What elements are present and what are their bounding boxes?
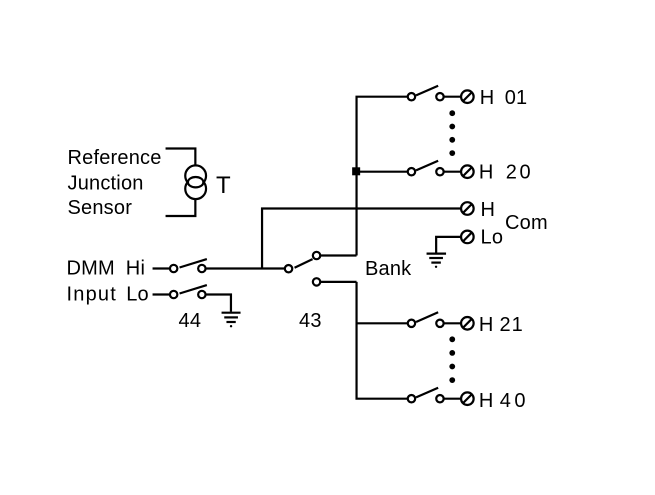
svg-text:H: H	[480, 87, 495, 109]
svg-text:T: T	[216, 172, 231, 199]
svg-text:H: H	[479, 162, 494, 184]
svg-text:Junction: Junction	[68, 173, 144, 195]
svg-text:Lo: Lo	[126, 284, 149, 306]
svg-text:21: 21	[500, 314, 524, 336]
svg-text:44: 44	[179, 310, 202, 332]
svg-text:40: 40	[500, 390, 529, 412]
svg-text:20: 20	[506, 162, 533, 184]
svg-text:Com: Com	[505, 212, 548, 234]
svg-text:H: H	[481, 199, 496, 221]
svg-text:Sensor: Sensor	[68, 197, 133, 219]
svg-text:Input: Input	[67, 284, 117, 306]
svg-text:Lo: Lo	[481, 226, 504, 248]
svg-text:DMM: DMM	[67, 257, 115, 279]
svg-text:Reference: Reference	[68, 147, 162, 169]
svg-text:H: H	[479, 314, 494, 336]
svg-text:01: 01	[505, 87, 528, 109]
svg-text:43: 43	[299, 310, 322, 332]
svg-text:H: H	[479, 390, 494, 412]
svg-text:Bank: Bank	[365, 258, 412, 280]
svg-text:Hi: Hi	[126, 257, 145, 279]
